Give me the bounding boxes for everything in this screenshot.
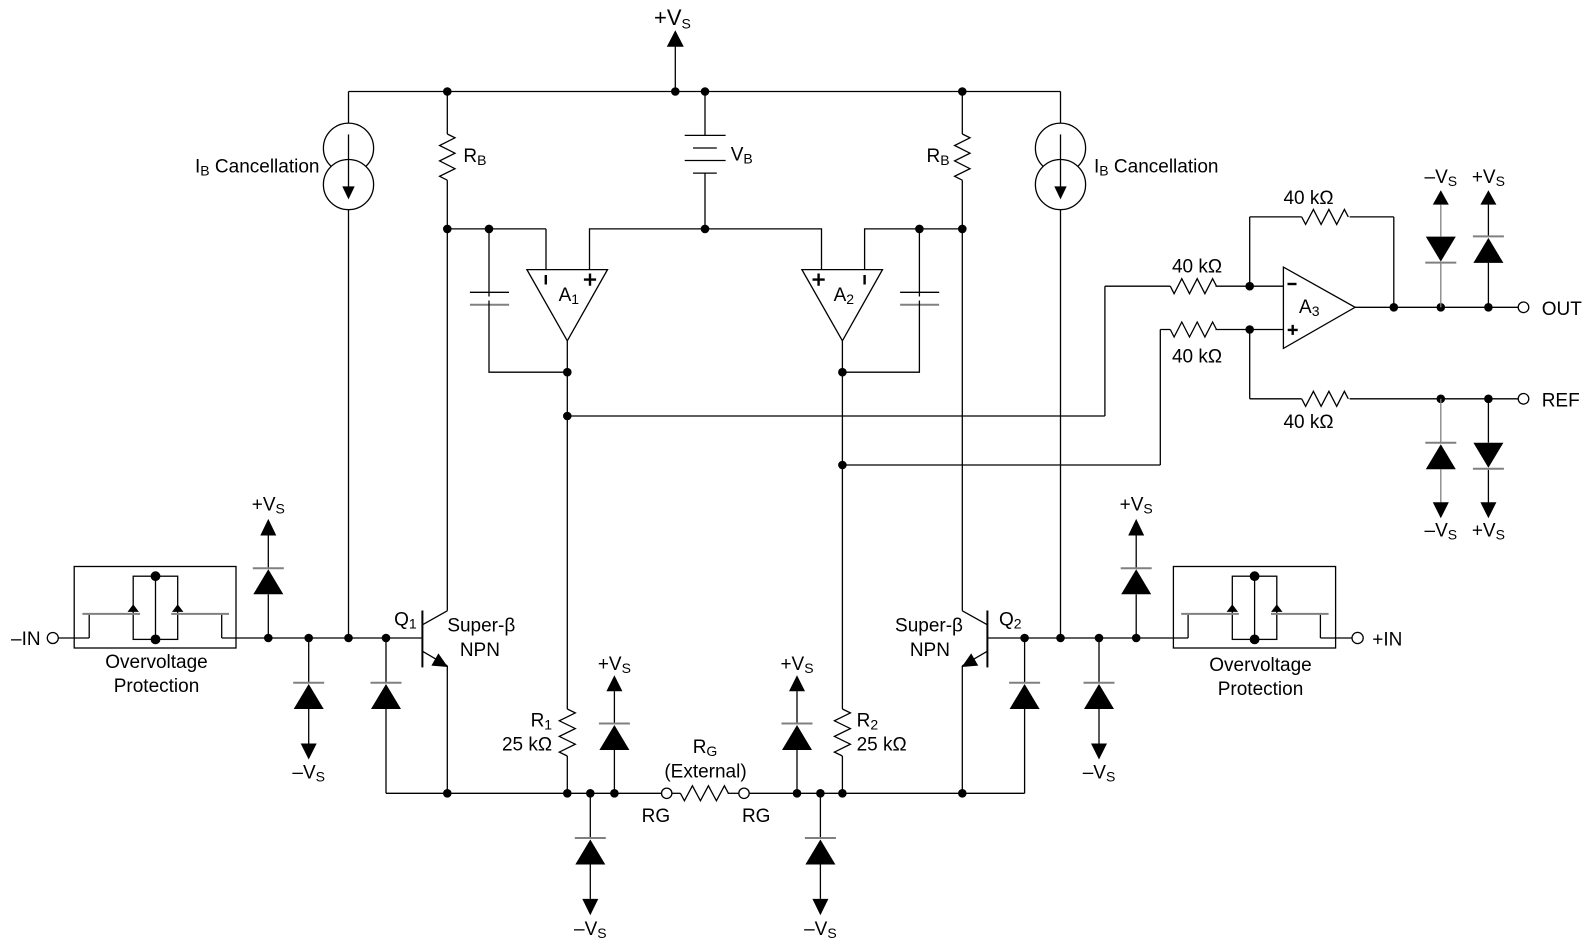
capacitor C1 (left of A1) <box>470 229 567 372</box>
diode rail to +VS (left) <box>598 654 631 793</box>
diode clamp OUT to -VS <box>1425 190 1456 307</box>
svg-text:–VS: –VS <box>574 919 607 941</box>
node: A3 output junction dots <box>1390 303 1493 312</box>
node: junction dots on mid bus <box>443 225 967 234</box>
wire: mid bus segment A2 inverting input to RB2 <box>865 229 963 270</box>
op-amp A2 <box>802 270 883 341</box>
wire: A1 output to A3 inverting 40k <box>567 286 1170 416</box>
diode -VS below rail (left) <box>574 793 607 941</box>
node: junction dots on top bus <box>443 87 967 96</box>
svg-text:Q2: Q2 <box>999 609 1022 631</box>
resistor 40k (A3 non-inverting input) <box>1170 322 1283 368</box>
battery VB <box>685 92 753 229</box>
svg-text:–VS: –VS <box>1083 763 1116 785</box>
wire: mid bus segment RB1 to A1 inverting input <box>447 229 546 270</box>
svg-text:R2: R2 <box>857 711 879 733</box>
wire: +VS top supply bus <box>349 91 1061 93</box>
diode -VS to +IN node <box>1083 638 1116 785</box>
transistor Q1 (Super-beta NPN) <box>394 229 515 793</box>
svg-text:OUT: OUT <box>1542 299 1583 320</box>
current source I_B Cancellation (right) <box>1035 92 1218 639</box>
terminal REF <box>1518 390 1580 411</box>
svg-text:Protection: Protection <box>1218 679 1304 700</box>
resistor RB (left) <box>440 92 487 229</box>
svg-text:Super-β: Super-β <box>447 616 515 637</box>
wire: -IN to overvoltage protection <box>58 637 89 639</box>
capacitor C2 (right of A2) <box>842 229 939 372</box>
wire: mid bus segment A1 + input to VB to A2 + input <box>590 229 822 270</box>
node: junction dots on left rail <box>443 789 619 798</box>
svg-text:–VS: –VS <box>1425 521 1458 543</box>
svg-text:+VS: +VS <box>780 654 813 676</box>
supply +VS (top center) <box>654 5 691 91</box>
svg-text:–VS: –VS <box>292 763 325 785</box>
svg-text:IB Cancellation: IB Cancellation <box>1094 156 1218 178</box>
wire: A2 output to A3 non-inverting 40k <box>842 330 1170 466</box>
svg-text:+VS: +VS <box>1472 167 1505 189</box>
wire: emitter rail (left) <box>386 792 662 794</box>
svg-text:(External): (External) <box>664 762 746 783</box>
svg-text:–VS: –VS <box>804 919 837 941</box>
wire: OVP to +IN terminal <box>1320 637 1352 639</box>
svg-text:R1: R1 <box>531 711 553 733</box>
svg-text:–IN: –IN <box>11 629 41 650</box>
svg-text:40 kΩ: 40 kΩ <box>1172 347 1222 368</box>
svg-text:IB Cancellation: IB Cancellation <box>195 156 319 178</box>
current source I_B Cancellation (left) <box>195 92 374 639</box>
svg-text:NPN: NPN <box>910 640 950 661</box>
resistor R2 25k <box>834 709 906 793</box>
diode rail to +VS (right) <box>780 654 813 793</box>
wire: A3 output to OUT <box>1355 306 1518 308</box>
node: junction dots on +IN node line <box>1020 634 1140 643</box>
overvoltage protection block (right) <box>1173 567 1335 701</box>
svg-text:+VS: +VS <box>252 495 285 517</box>
node: junction dots on right rail <box>793 789 967 798</box>
node: A2 output junctions <box>838 368 847 377</box>
diode +IN node to emitter rail <box>1009 638 1040 793</box>
svg-text:RG: RG <box>742 806 771 827</box>
svg-text:40 kΩ: 40 kΩ <box>1172 256 1222 277</box>
svg-text:Protection: Protection <box>114 676 200 697</box>
node: A1 output junctions <box>563 368 572 377</box>
svg-text:RB: RB <box>927 146 950 168</box>
diode -VS to -IN node <box>292 638 325 785</box>
svg-text:40 kΩ: 40 kΩ <box>1283 188 1333 209</box>
transistor Q2 (Super-beta NPN) <box>895 229 1022 793</box>
terminal OUT <box>1518 299 1582 320</box>
resistor 40k (REF) <box>1250 330 1519 433</box>
svg-text:Overvoltage: Overvoltage <box>1209 655 1311 676</box>
svg-text:RB: RB <box>463 146 486 168</box>
diode -IN node to +VS <box>252 495 285 639</box>
diode -VS below rail (right) <box>804 793 837 941</box>
wire: Q2 base node line <box>988 637 1188 639</box>
svg-text:+VS: +VS <box>598 654 631 676</box>
svg-text:+VS: +VS <box>654 5 691 31</box>
svg-text:+VS: +VS <box>1120 495 1153 517</box>
svg-text:Q1: Q1 <box>394 609 417 631</box>
diode clamp REF to -VS <box>1425 399 1456 519</box>
diode clamp REF to +VS <box>1473 399 1504 519</box>
wire: emitter rail (right) <box>749 792 1024 794</box>
resistor 40k (A3 feedback) <box>1250 188 1394 307</box>
resistor R1 25k <box>502 709 575 793</box>
op-amp A3 <box>1283 267 1355 348</box>
diode +IN node to +VS <box>1120 495 1153 639</box>
svg-text:25 kΩ: 25 kΩ <box>502 735 552 756</box>
op-amp A1 <box>527 270 608 341</box>
wire: OVP to Q1 base node line <box>222 637 422 639</box>
node: REF junction dots <box>1437 395 1493 404</box>
svg-text:25 kΩ: 25 kΩ <box>857 735 907 756</box>
svg-text:Overvoltage: Overvoltage <box>105 652 207 673</box>
resistor 40k (A3 inverting input) <box>1170 256 1283 293</box>
svg-text:RG: RG <box>642 806 671 827</box>
svg-text:NPN: NPN <box>460 640 500 661</box>
overvoltage protection block (left) <box>74 567 236 698</box>
svg-text:+VS: +VS <box>1472 521 1505 543</box>
terminal +IN <box>1352 630 1402 651</box>
node: junction dots on -IN node line <box>264 634 390 643</box>
svg-text:VB: VB <box>731 144 753 166</box>
svg-text:REF: REF <box>1542 390 1580 411</box>
terminal -IN <box>11 629 58 650</box>
wire: A1 output down through R1 <box>566 341 568 709</box>
svg-text:–VS: –VS <box>1425 167 1458 189</box>
resistor RG (external) with RG terminals <box>642 737 771 827</box>
svg-text:Super-β: Super-β <box>895 616 963 637</box>
svg-text:40 kΩ: 40 kΩ <box>1283 412 1333 433</box>
node: A3 input junction dots <box>1245 282 1254 291</box>
wire: A2 output down through R2 <box>841 341 843 709</box>
svg-text:+IN: +IN <box>1372 630 1402 651</box>
svg-text:RG: RG <box>693 737 718 759</box>
diode clamp OUT to +VS <box>1473 190 1504 307</box>
diode -IN node to emitter rail <box>371 638 402 793</box>
resistor RB (right) <box>927 92 971 229</box>
